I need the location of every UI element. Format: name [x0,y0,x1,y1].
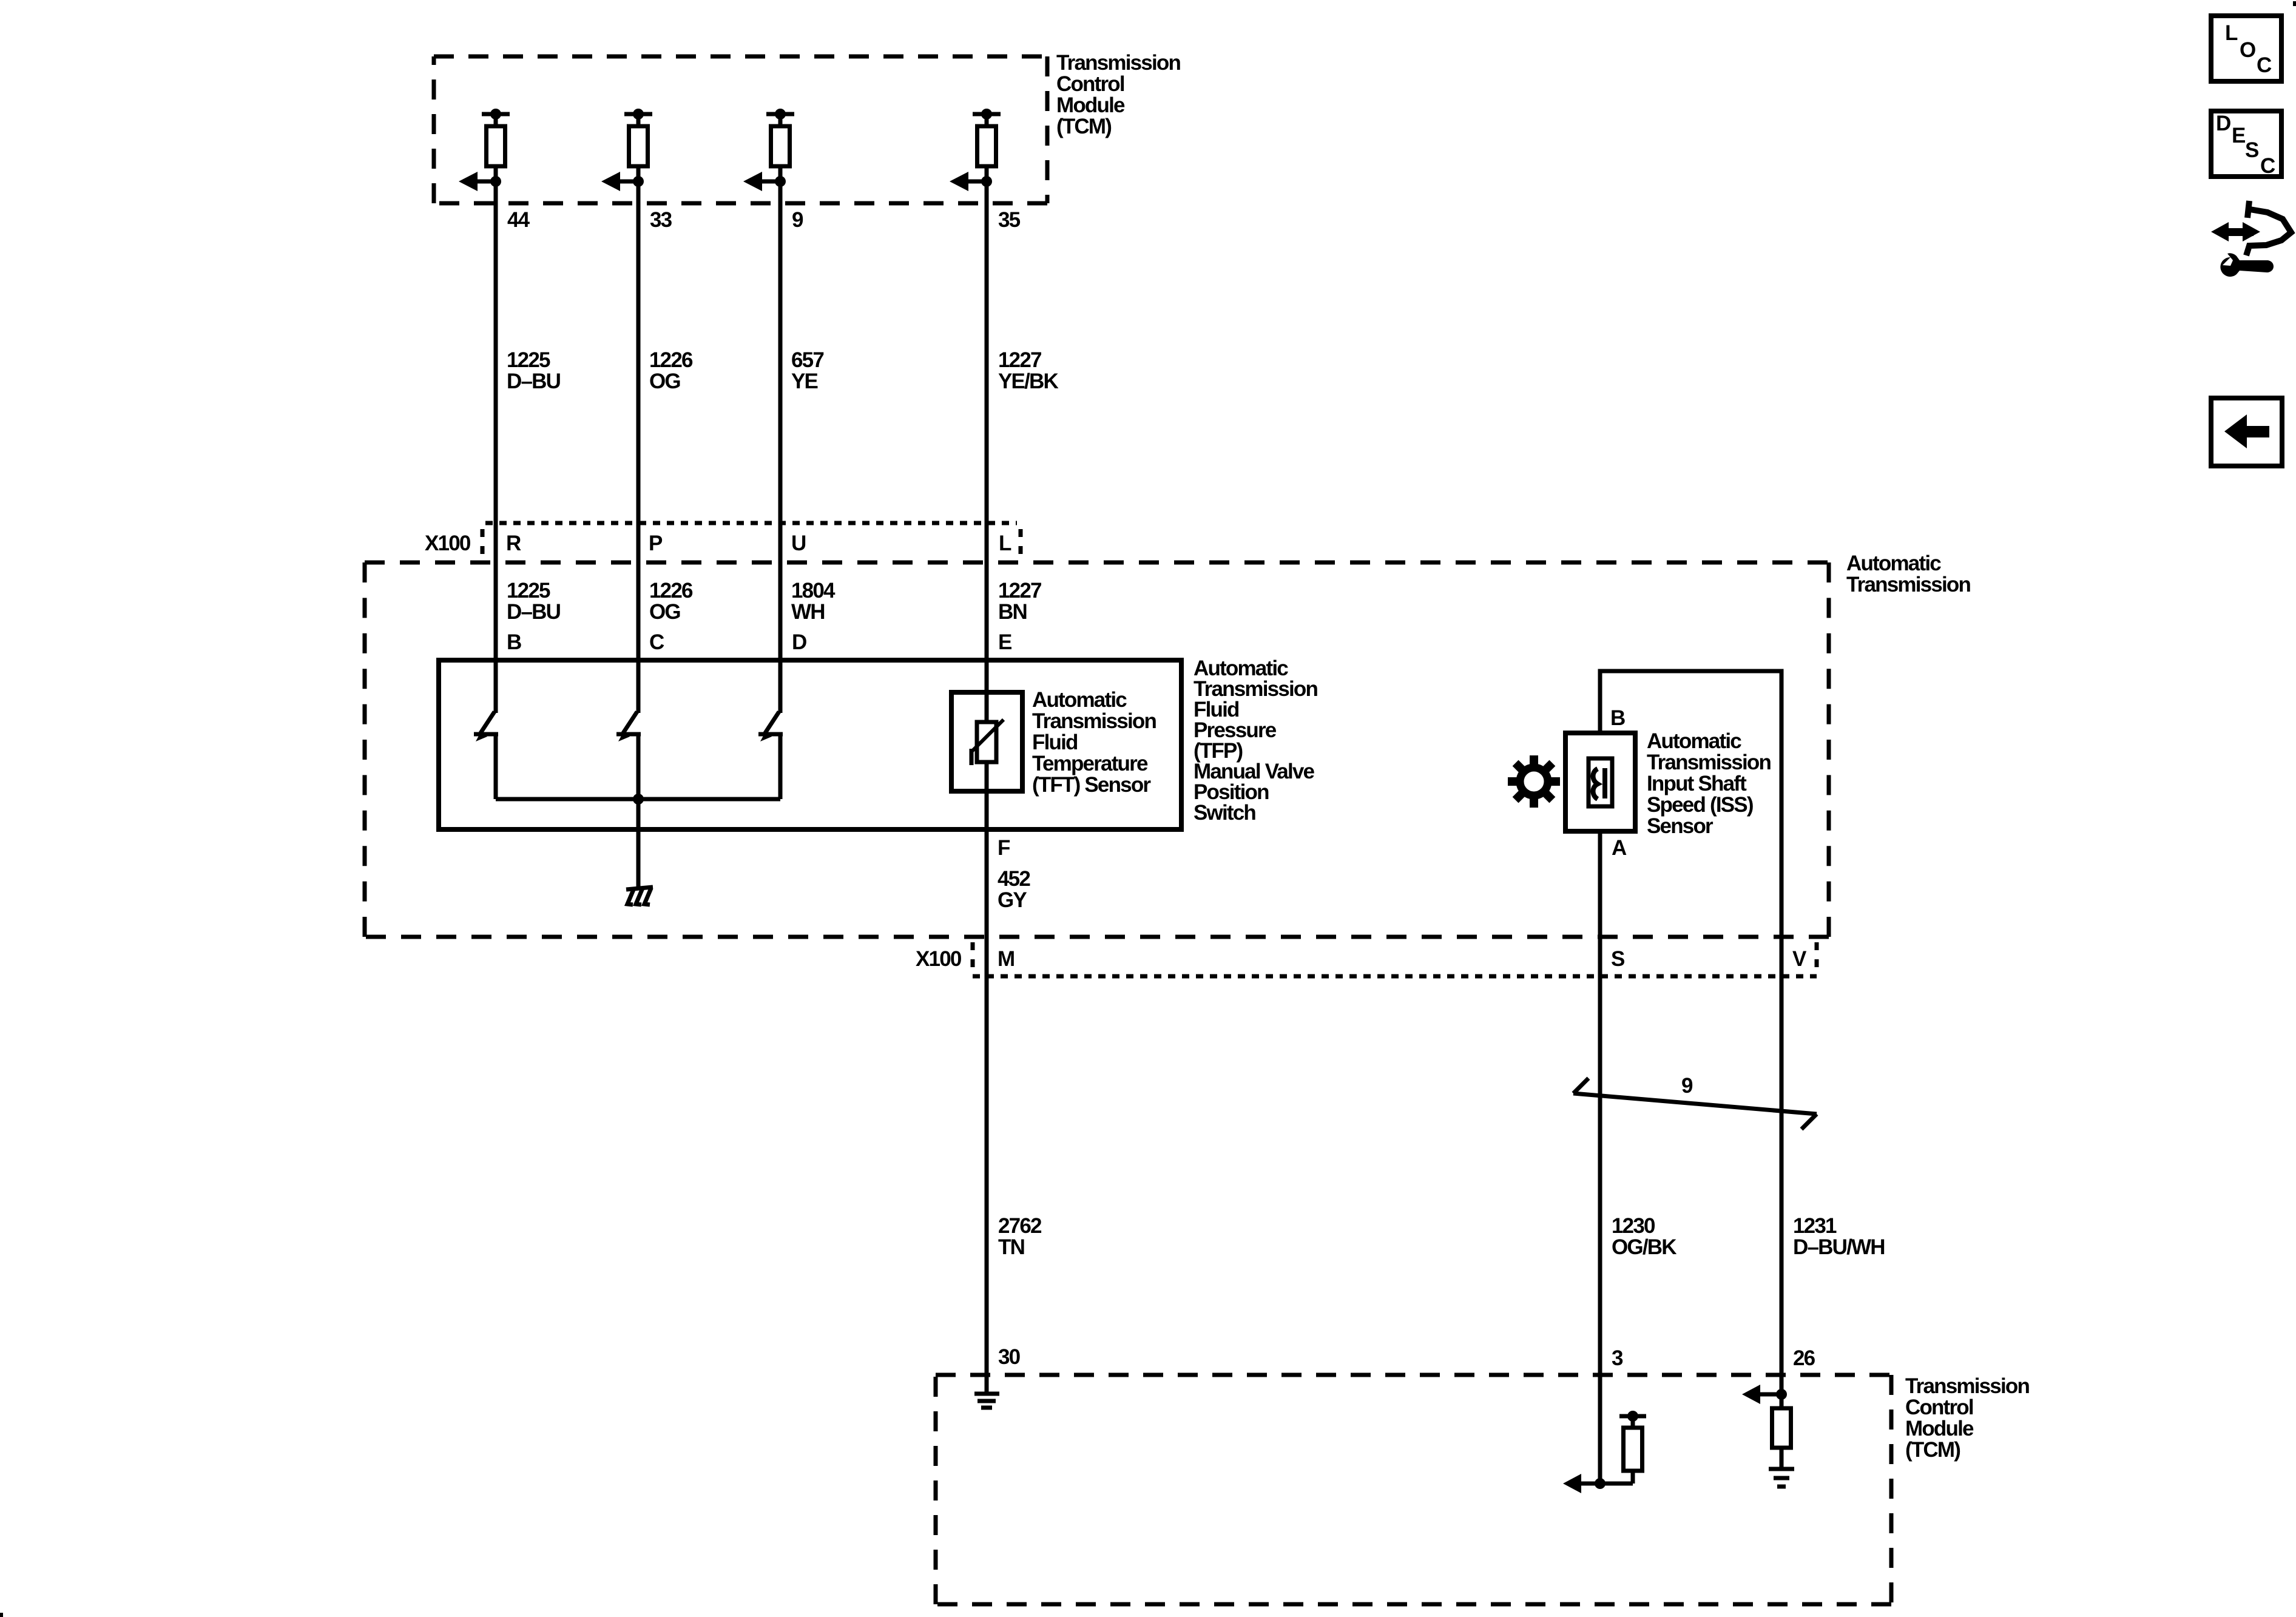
junction node at TCM pin 9 [775,176,786,187]
back arrow icon box [2211,398,2282,466]
label 2762 TN [998,1214,1042,1259]
svg-text:Transmission: Transmission [1032,709,1156,733]
svg-text:Control: Control [1056,72,1124,96]
svg-text:Fluid: Fluid [1032,731,1078,754]
svg-text:B: B [1610,706,1625,730]
label 657 YE [791,348,823,393]
label 1226 OG (transmission side) [649,579,693,624]
svg-text:Transmission: Transmission [1056,51,1180,75]
wire loop (ISS B to TCM 26) [1600,671,1781,1394]
svg-text:9: 9 [1681,1074,1693,1098]
TCM label (top) [1056,51,1180,138]
svg-text:1226: 1226 [649,348,693,372]
svg-text:33: 33 [650,208,672,232]
svg-text:1227: 1227 [998,348,1041,372]
svg-text:Transmission: Transmission [1846,573,1970,596]
svg-text:TN: TN [998,1235,1024,1259]
svg-text:Automatic: Automatic [1846,552,1941,575]
svg-text:Automatic: Automatic [1647,729,1741,753]
svg-text:657: 657 [791,348,823,372]
svg-text:P: P [649,532,663,555]
arrow (TCM pin 44 output) [459,172,496,191]
svg-text:Temperature: Temperature [1032,752,1148,775]
svg-text:U: U [791,532,806,555]
twisted-pair symbol [1573,1078,1817,1129]
label 452 GY [998,867,1030,912]
connector X100 (bottom) [916,942,1817,976]
resistor R4 (TCM pin 35 pull-up) [973,109,1001,181]
wire 1225 D-BU (TCM 44 to TFP switch B) [494,181,498,713]
label 1804 WH [791,579,836,624]
label 1230 OG/BK [1612,1214,1676,1259]
ISS sensor [1565,733,1635,831]
TCM module box (top, dashed) [434,56,1047,203]
svg-text:1225: 1225 [507,579,550,603]
svg-text:D: D [2216,112,2230,135]
wire 1227 YE-BK / BN / 452 GY / 2762 TN (TCM 35 through TFT sensor to TCM 30) [985,181,989,1394]
TFP switch label [1194,657,1317,825]
svg-text:1230: 1230 [1612,1214,1655,1238]
junction node (R5 rail) [1627,1411,1638,1422]
junction node (TCM pin 3) [1595,1478,1606,1489]
svg-text:X100: X100 [916,947,962,971]
page artifact (bottom left) [0,1613,3,1617]
svg-text:B: B [507,630,521,654]
Automatic Transmission label [1846,552,1970,596]
svg-text:1804: 1804 [791,579,836,603]
bus wire (switch commons) [496,797,780,802]
svg-text:(TCM): (TCM) [1905,1438,1960,1462]
label 1225 D-BU [507,348,561,393]
svg-text:OG: OG [649,370,680,393]
svg-text:E: E [2232,124,2245,147]
svg-text:O: O [2240,38,2255,62]
svg-text:9: 9 [792,208,803,232]
svg-text:1227: 1227 [998,579,1041,603]
svg-text:C: C [649,630,664,654]
svg-text:1226: 1226 [649,579,693,603]
svg-text:D: D [792,630,806,654]
svg-text:L: L [999,532,1011,555]
component ground (TFP switch) [626,887,653,905]
junction node (TCM pin 26) [1776,1389,1787,1400]
wire 1226 OG (TCM 33 to TFP switch C) [636,181,641,713]
arrow (TCM pin 33 output) [601,172,638,191]
svg-text:Input Shaft: Input Shaft [1647,772,1747,795]
connector X100 (top) [425,523,1021,558]
svg-text:V: V [1792,947,1807,971]
wire to TFP switch ground [636,799,641,887]
svg-text:Transmission: Transmission [1647,751,1771,774]
resistor R5 (TCM pin 3 pull-up) [1600,1416,1646,1484]
svg-text:Control: Control [1905,1396,1973,1419]
wire 657 YE / 1804 WH (TCM 9 to TFP switch D) [778,181,783,713]
svg-text:YE: YE [791,370,818,393]
arrow (TCM pin 3 input) [1563,1474,1600,1493]
wire 1230 OG/BK (ISS A to TCM 3) [1598,831,1602,1484]
resistor R2 (TCM pin 33 pull-up) [624,109,652,181]
svg-text:Switch: Switch [1194,801,1255,825]
label 1225 D-BU (transmission side) [507,579,561,624]
svg-text:OG: OG [649,600,680,624]
svg-text:YE/BK: YE/BK [998,370,1058,393]
resistor R3 (TCM pin 9 pull-up) [766,109,794,181]
svg-text:BN: BN [998,600,1027,624]
svg-text:R: R [506,532,521,555]
arrow (TCM pin 35 output) [950,172,987,191]
svg-text:(TCM): (TCM) [1056,115,1111,138]
svg-text:OG/BK: OG/BK [1612,1235,1676,1259]
junction node at TCM pin 44 [490,176,501,187]
junction node (switch common to ground) [633,794,644,805]
svg-text:Transmission: Transmission [1905,1374,2029,1398]
label 1227 BN [998,579,1041,624]
svg-text:1225: 1225 [507,348,550,372]
svg-text:30: 30 [998,1345,1021,1369]
svg-text:Module: Module [1056,93,1125,117]
svg-text:C: C [2260,154,2275,178]
arrow (TCM pin 26 input) [1742,1385,1781,1404]
ISS sensor label [1647,729,1771,838]
svg-text:L: L [2225,21,2238,45]
svg-text:Speed (ISS): Speed (ISS) [1647,793,1753,817]
TFT sensor label [1032,688,1156,797]
svg-text:WH: WH [791,600,825,624]
page artifact (top right) [2293,1,2296,6]
junction node at TCM pin 35 [981,176,992,187]
svg-text:1231: 1231 [1793,1214,1837,1238]
svg-text:S: S [2245,138,2258,162]
switch contact (pin C) [616,712,641,799]
svg-text:S: S [1611,947,1624,971]
svg-text:GY: GY [998,888,1027,912]
svg-text:3: 3 [1612,1346,1623,1370]
junction node at TCM pin 33 [633,176,644,187]
earth ground (TCM pin 30) [974,1394,999,1408]
TCM module box (bottom, dashed) [936,1375,1891,1604]
svg-text:D–BU: D–BU [507,600,561,624]
TFP manual valve position switch body [439,660,1181,829]
LOC icon box [2211,16,2281,81]
svg-text:452: 452 [998,867,1030,891]
resistor R6 (TCM pin 26 to ground) [1772,1394,1791,1469]
svg-text:M: M [998,947,1014,971]
svg-text:35: 35 [998,208,1021,232]
svg-text:(TFT) Sensor: (TFT) Sensor [1032,773,1151,797]
label 1231 D-BU/WH [1793,1214,1885,1259]
svg-text:A: A [1612,836,1627,860]
resistor R1 (TCM pin 44 pull-up) [482,109,510,181]
switch contact (pin D) [758,712,783,799]
svg-text:Automatic: Automatic [1032,688,1127,712]
svg-text:F: F [998,836,1010,860]
service icon (double arrow and wrench) [2211,201,2291,277]
svg-text:C: C [2257,53,2272,77]
svg-text:D–BU/WH: D–BU/WH [1793,1235,1885,1259]
svg-text:E: E [998,630,1011,654]
switch contact (pin B) [474,712,498,799]
svg-text:44: 44 [507,208,530,232]
arrow (TCM pin 9 output) [743,172,780,191]
DESC icon box [2211,111,2281,178]
svg-text:X100: X100 [425,532,471,555]
svg-text:26: 26 [1793,1346,1815,1370]
svg-text:Sensor: Sensor [1647,814,1714,838]
TCM label (bottom) [1905,1374,2029,1462]
label 1226 OG [649,348,693,393]
earth ground (TCM pin 26) [1769,1469,1794,1487]
svg-text:Module: Module [1905,1417,1974,1440]
TFT sensor (thermistor) [951,692,1022,791]
gear icon (input shaft) [1508,755,1560,808]
label 1227 YE/BK [998,348,1058,393]
svg-text:2762: 2762 [998,1214,1042,1238]
Automatic Transmission box (dashed) [365,562,1829,937]
svg-text:D–BU: D–BU [507,370,561,393]
